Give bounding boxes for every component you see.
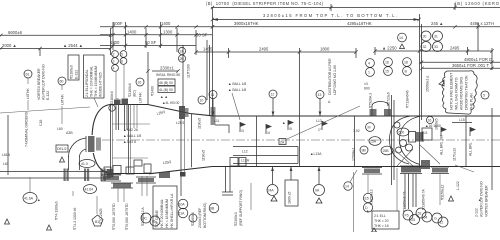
svg-text:30: 30: [423, 35, 427, 39]
svg-text:∇70,000 .2675TD: ∇70,000 .2675TD: [125, 203, 129, 231]
nozzle below cone: [222, 167, 233, 196]
balloon 10 cone: [198, 96, 206, 104]
svg-text:1400: 1400: [161, 21, 171, 26]
cloud note right: [439, 71, 477, 114]
svg-text:4L (B) 00: 4L (B) 00: [159, 88, 173, 92]
left shell top: [110, 104, 148, 106]
svg-text:∇74-1300±6: ∇74-1300±6: [55, 201, 59, 221]
boxed note small left: [68, 55, 79, 80]
leader tag 1800: [285, 167, 298, 207]
svg-text:33: 33: [434, 45, 438, 49]
balloon 12: [269, 90, 277, 116]
dimension line 6600: [0, 30, 111, 35]
svg-text:4495 x 12TH: 4495 x 12TH: [470, 21, 494, 26]
ellipse tag 41.64: [84, 185, 97, 194]
svg-text:E5: E5: [365, 197, 369, 201]
svg-text:7-NOMINAL GIRDERS: 7-NOMINAL GIRDERS: [25, 111, 29, 147]
svg-text:▲: ▲: [37, 198, 40, 202]
manway flange stack: [409, 132, 424, 143]
diagonal leader right vessel: [420, 145, 440, 164]
leader balloon 9A: [314, 167, 325, 204]
svg-text:▲: ▲: [478, 198, 481, 202]
svg-text:TOP CONE: TOP CONE: [155, 209, 159, 228]
triangle markers: [47, 225, 52, 230]
svg-text:▲ L62 26: ▲ L62 26: [123, 128, 138, 132]
left shell bottom: [110, 173, 152, 175]
svg-text:▲ BALL 1/8: ▲ BALL 1/8: [228, 82, 246, 86]
svg-text:L6THK: L6THK: [61, 94, 65, 105]
svg-text:1: 1: [368, 71, 370, 75]
elbow arc inner: [80, 149, 88, 157]
svg-text:14: 14: [399, 36, 403, 40]
dimension line 3650: [422, 63, 500, 68]
svg-text:1405: 1405: [203, 47, 213, 52]
svg-text:B1: B1: [95, 220, 99, 224]
svg-text:11A: 11A: [179, 212, 186, 216]
leader balloon 24A: [267, 167, 278, 202]
svg-text:16: 16: [428, 119, 432, 123]
tray flag 3: [240, 122, 246, 133]
svg-text:2000 ▲: 2000 ▲: [2, 43, 17, 48]
svg-text:2B: 2B: [180, 57, 185, 61]
svg-text:5: 5: [121, 53, 123, 57]
svg-text:VORTEX BREAKER: VORTEX BREAKER: [37, 68, 41, 100]
svg-text:/4: /4: [267, 131, 270, 135]
black square nozzle under cone: [180, 172, 186, 177]
dim 2330: [152, 66, 178, 72]
circle M inside shell: [353, 123, 374, 133]
balloon 14: [344, 170, 357, 190]
svg-text:▲: ▲: [366, 209, 369, 213]
label L15: [452, 118, 472, 123]
vessel head left: [92, 105, 110, 174]
tray flag 4: [266, 124, 272, 135]
svg-text:∇74-3 1300 ±6: ∇74-3 1300 ±6: [73, 208, 77, 231]
balloon 13: [316, 91, 324, 117]
svg-text:∇2160±6: ∇2160±6: [70, 65, 74, 80]
svg-text:L61A: L61A: [2, 153, 11, 157]
tiny boxes row bottom of left section: [104, 160, 151, 174]
leader arrowheads: [212, 112, 215, 117]
balloon 60: [58, 77, 66, 124]
svg-text:14: 14: [345, 185, 349, 189]
svg-text:▲ 2250: ▲ 2250: [382, 46, 397, 51]
svg-text:1300: 1300: [163, 30, 173, 35]
nozzle black blob cone top: [179, 106, 216, 196]
svg-text:∇71384046: ∇71384046: [406, 90, 410, 109]
elbow arc outer: [69, 138, 88, 157]
svg-text:3: 3: [113, 60, 115, 64]
balloon cluster left top: [112, 51, 127, 72]
dimension line T6: [196, 47, 356, 53]
dimension tick slashes: [0, 6, 494, 73]
weld seam main 1: [256, 116, 258, 167]
right cluster head curves: [390, 116, 422, 165]
weld seam left shell: [128, 105, 130, 174]
balloon columns above shell: [364, 58, 411, 109]
svg-text:▲: ▲: [282, 121, 285, 125]
weld seam right vessel: [465, 116, 467, 167]
svg-text:/3: /3: [241, 129, 244, 133]
svg-text:2: 2: [113, 53, 115, 57]
svg-text:16: 16: [385, 61, 389, 65]
svg-text:HK = 18 MINIMUM: HK = 18 MINIMUM: [165, 199, 169, 228]
svg-text:4: 4: [368, 62, 370, 66]
svg-text:▲4L KB 00: ▲4L KB 00: [162, 101, 179, 105]
svg-text:60: 60: [60, 80, 64, 84]
svg-text:10A: 10A: [179, 203, 186, 207]
svg-text:THK = 20 NOMINAL: THK = 20 NOMINAL: [90, 66, 94, 97]
svg-text:/5: /5: [289, 127, 292, 131]
long vertical 183: [182, 45, 184, 108]
ellipse tag 41.6A: [23, 177, 40, 204]
svg-text:L12: L12: [242, 150, 248, 154]
balloon 11: [209, 91, 217, 117]
svg-text:THK = 18: THK = 18: [374, 224, 389, 228]
svg-text:18: 18: [404, 61, 408, 65]
svg-text:INSIDE HT=625: INSIDE HT=625: [99, 72, 103, 97]
svg-text:2A: 2A: [180, 50, 185, 54]
svg-text:46 (B) 00: 46 (B) 00: [159, 81, 173, 85]
dimension line 2250 right: [375, 46, 492, 52]
svg-text:6600±6: 6600±6: [8, 30, 23, 35]
dim 2160 pair left: [109, 91, 119, 111]
cone seam vertical: [191, 114, 193, 168]
svg-text:DEL/2: DEL/2: [57, 147, 67, 151]
balloon cluster top right: [421, 31, 443, 52]
svg-text:WILL GAS FOAM TO: WILL GAS FOAM TO: [455, 77, 459, 110]
svg-text:▲L13A: ▲L13A: [310, 152, 322, 156]
svg-text:∇2300±3: ∇2300±3: [234, 212, 238, 227]
svg-text:L6THK: L6THK: [139, 92, 143, 103]
svg-text:F5: F5: [405, 214, 409, 218]
dimension line T3: [100, 21, 500, 27]
small boxes insul: [156, 73, 180, 105]
svg-text:ALL BRL: ALL BRL: [469, 142, 473, 156]
svg-text:HK = 20 NOMINAL: HK = 20 NOMINAL: [160, 199, 164, 228]
dimension line T2 32800: [212, 13, 419, 21]
svg-text:THE PLAN: THE PLAN: [470, 93, 474, 110]
svg-text:24A: 24A: [268, 189, 275, 193]
svg-text:15: 15: [385, 70, 389, 74]
svg-text:▲ L63 8: ▲ L63 8: [123, 140, 136, 144]
svg-text:31: 31: [434, 35, 438, 39]
diagonal leader mid: [287, 106, 360, 139]
svg-text:50 SF: 50 SF: [145, 40, 157, 45]
svg-text:1190±5: 1190±5: [202, 150, 206, 161]
balloons after cone box: [178, 183, 251, 228]
svg-text:1400: 1400: [127, 30, 137, 35]
svg-text:L15: L15: [459, 118, 465, 122]
nozzle stubs on left shell top: [114, 65, 128, 130]
flange bottom right vessel left: [421, 160, 430, 169]
balloon 14 top right: [398, 33, 407, 48]
balloons above cluster: [0, 0, 1, 1]
svg-text:13: 13: [318, 93, 322, 97]
dimension line T4: [100, 30, 212, 38]
box in right vessel: [422, 128, 432, 140]
svg-text:L5: L5: [424, 131, 428, 135]
svg-text:M: M: [368, 126, 371, 130]
svg-text:∇2160±6: ∇2160±6: [128, 83, 132, 98]
svg-text:(B) 12600 (KERO: (B) 12600 (KERO: [455, 1, 500, 6]
svg-text:L13: L13: [316, 119, 322, 123]
svg-text:1700A±1: 1700A±1: [352, 147, 356, 161]
svg-text:ALL BRL 390: ALL BRL 390: [440, 135, 444, 155]
left elbow pipe vertical: [60, 135, 103, 170]
svg-text:(BC): (BC): [133, 90, 137, 97]
svg-text:L60: L60: [57, 127, 63, 131]
pentagon marker B1: [96, 196, 98, 214]
svg-text:VORTEX BREAKER: VORTEX BREAKER: [485, 185, 489, 217]
bottom nozzle under cluster main: [400, 166, 432, 225]
balloon 61: [24, 70, 32, 110]
tray box L12 L12A: [233, 147, 298, 164]
balloon 16 cone: [136, 78, 144, 103]
bottom-left columns of rotated dims with balloons: [118, 188, 160, 231]
svg-text:G5: G5: [411, 218, 416, 222]
svg-text:AVOID ROTATE DRG: AVOID ROTATE DRG: [460, 76, 464, 110]
svg-text:(B) 10700 (DIESEL STRIPPER I: (B) 10700 (DIESEL STRIPPER ITEM NO. 75-C…: [206, 1, 324, 6]
svg-text:DISTRIBUTOR AS PER: DISTRIBUTOR AS PER: [328, 58, 332, 95]
svg-text:∇1400: ∇1400: [151, 86, 155, 97]
balloon pair mid: [178, 47, 185, 62]
svg-text:4: 4: [113, 67, 115, 71]
svg-text:4295±16THK: 4295±16THK: [347, 21, 372, 26]
right cluster verticals: [392, 95, 395, 185]
boxed note top cone: [153, 186, 177, 229]
svg-text:THK = 20: THK = 20: [374, 219, 389, 223]
cone top: [148, 105, 212, 116]
weld seam main 2: [354, 116, 356, 167]
svg-text:2300±3 (REF: 2300±3 (REF: [198, 207, 202, 228]
svg-text:1L∇7200: 1L∇7200: [187, 64, 191, 78]
cluster cross diagonals: [396, 151, 413, 166]
svg-text:41.64: 41.64: [85, 188, 94, 192]
centerline: [86, 139, 500, 141]
tray flag 5: [282, 120, 294, 131]
oval 600 in cluster: [394, 122, 413, 153]
svg-text:12: 12: [271, 93, 275, 97]
svg-text:9C: 9C: [143, 217, 148, 221]
svg-text:LDP DWG NO 1-60: LDP DWG NO 1-60: [333, 65, 337, 95]
svg-text:1190±5: 1190±5: [198, 118, 202, 129]
svg-text:THK = 16 MINIMUM: THK = 16 MINIMUM: [94, 66, 98, 97]
note vortex breaker left: [37, 64, 50, 100]
bottom nozzle under cluster left: [362, 168, 382, 213]
weld seam head: [110, 105, 112, 174]
ellipse tag 41.0: [79, 160, 95, 168]
svg-text:9B: 9B: [362, 149, 367, 153]
svg-text:4800±1 FOR D: 4800±1 FOR D: [464, 57, 492, 62]
svg-text:(REF SUPPORT RING): (REF SUPPORT RING): [239, 190, 243, 226]
weld seam far right: [491, 108, 493, 190]
left section internal lines: [112, 123, 150, 125]
svg-text:54: 54: [424, 216, 428, 220]
tray L11: [214, 119, 229, 133]
cone bottom: [149, 167, 212, 174]
boxed note 2:1 ell bottom: [366, 168, 399, 232]
svg-text:2495: 2495: [259, 47, 269, 52]
svg-text:1170±13: 1170±13: [453, 148, 457, 161]
bottom nozzle flange under left shell 2: [136, 177, 156, 183]
extension verticals top: [40, 3, 492, 168]
left internals small text rows: [0, 107, 141, 175]
svg-text:3650±1 FOR .001 T: 3650±1 FOR .001 T: [452, 63, 489, 68]
svg-text:2:1 ELLIPSOIDAL: 2:1 ELLIPSOIDAL: [85, 69, 89, 97]
svg-text:41.6A: 41.6A: [24, 197, 34, 201]
note distributor: [328, 58, 337, 104]
svg-text:25A: 25A: [370, 140, 377, 144]
main shell top: [212, 115, 500, 117]
svg-text:1.92: 1.92: [353, 129, 360, 133]
svg-text:16: 16: [138, 81, 142, 85]
bottom-left rotated leader texts: [5, 191, 117, 231]
svg-text:▲ ▲: ▲ ▲: [160, 95, 168, 99]
tray flag right vessel 2: [469, 127, 477, 156]
svg-text:HK SHELL=HR KR LA: HK SHELL=HR KR LA: [170, 193, 174, 228]
svg-text:▲ BALL 1/8: ▲ BALL 1/8: [123, 134, 141, 138]
svg-text:2495: 2495: [450, 46, 460, 51]
svg-text:∇1385046.7A: ∇1385046.7A: [403, 191, 407, 213]
rotated dims right vessel: [435, 119, 457, 161]
long leader vertical 353: [353, 172, 355, 232]
svg-text:∇1150±12: ∇1150±12: [441, 185, 445, 201]
triangle under DEL2: [60, 157, 65, 162]
svg-text:6B: 6B: [210, 207, 215, 211]
box 2A on centerline: [279, 139, 286, 145]
svg-text:L25/1: L25/1: [176, 121, 185, 125]
dimension line 2000/2544: [0, 43, 111, 49]
svg-text:2330±1: 2330±1: [160, 66, 175, 71]
svg-text:245 ▲: 245 ▲: [431, 21, 443, 26]
svg-text:1800 ±5: 1800 ±5: [288, 192, 292, 204]
svg-text:L6THK: L6THK: [26, 88, 30, 99]
boxed note 2:1 ellipsoidal head: [84, 55, 105, 107]
svg-text:BOTTOM RING): BOTTOM RING): [203, 203, 207, 228]
svg-text:▲ BALL 1/8: ▲ BALL 1/8: [228, 88, 246, 92]
bottom nozzle flange under left shell: [101, 175, 133, 188]
svg-text:/7: /7: [318, 128, 321, 132]
svg-text:9A: 9A: [315, 189, 320, 193]
svg-text:±3: ±3: [364, 82, 368, 86]
svg-text:∇2160±6: ∇2160±6: [110, 91, 114, 106]
svg-text:G: G: [434, 217, 437, 221]
svg-text:12: 12: [440, 221, 444, 225]
svg-text:41.0: 41.0: [81, 162, 88, 166]
elbow flange at head nozzle: [86, 135, 102, 153]
svg-text:A3B: A3B: [66, 131, 73, 135]
svg-text:INSUL RING 80: INSUL RING 80: [156, 73, 180, 77]
small rects in shell bottom: [230, 158, 238, 167]
svg-text:E-132: E-132: [46, 91, 50, 100]
svg-text:61: 61: [26, 73, 30, 77]
balloon 5 right: [481, 91, 489, 99]
note vortex breaker right: [455, 165, 489, 217]
cone bottom hatch flange: [142, 172, 170, 196]
svg-text:2A: 2A: [280, 141, 285, 145]
dimension line T1 overall: [206, 1, 500, 11]
svg-text:E-132: E-132: [75, 70, 79, 79]
svg-text:1300: 1300: [110, 40, 120, 45]
dimension line T5: [100, 40, 196, 46]
svg-text:▲ 2544 ▲: ▲ 2544 ▲: [63, 43, 83, 48]
svg-text:L12A: L12A: [241, 159, 250, 163]
svg-text:32: 32: [423, 45, 427, 49]
svg-text:∇1385046.7A: ∇1385046.7A: [422, 189, 426, 211]
triangle right: [449, 196, 454, 201]
U pipe on shell top: [370, 102, 392, 117]
svg-text:53: 53: [418, 212, 422, 216]
main shell bottom: [212, 166, 500, 168]
svg-text:DROOPING THAT ON: DROOPING THAT ON: [465, 75, 469, 110]
svg-text:6: 6: [121, 60, 123, 64]
svg-text:C18: C18: [39, 120, 43, 126]
svg-text:11: 11: [211, 93, 215, 97]
svg-text:∇70,000 .2675TD: ∇70,000 .2675TD: [112, 203, 116, 231]
svg-text:3900x16THK: 3900x16THK: [234, 21, 259, 26]
horizontal pipe left: [0, 169, 114, 182]
svg-text:1800: 1800: [320, 47, 330, 52]
oval tags near right cluster: [352, 137, 394, 161]
svg-text:600: 600: [399, 131, 405, 135]
svg-text:2-122: 2-122: [475, 208, 479, 217]
svg-text:1030±5: 1030±5: [435, 119, 439, 130]
svg-text:10: 10: [200, 99, 204, 103]
tray L13 flag 7: [316, 119, 328, 132]
svg-text:25B: 25B: [383, 149, 390, 153]
svg-text:L-122: L-122: [456, 181, 460, 190]
balloon right of manway: [425, 116, 441, 128]
bottom nozzle under cluster right: [431, 167, 460, 227]
svg-text:15069±1 Δ: 15069±1 Δ: [426, 75, 430, 92]
svg-text:AS PER LDP DWG NO: AS PER LDP DWG NO: [42, 64, 46, 100]
svg-text:NOTCH PAD ELEMENT: NOTCH PAD ELEMENT: [450, 72, 454, 110]
dimension line 4800: [420, 57, 500, 62]
svg-text:600: 600: [364, 87, 370, 91]
tray flag right vessel 1: [440, 127, 448, 155]
svg-text:5: 5: [483, 94, 485, 98]
svg-text:2:1 ELL: 2:1 ELL: [374, 214, 386, 218]
